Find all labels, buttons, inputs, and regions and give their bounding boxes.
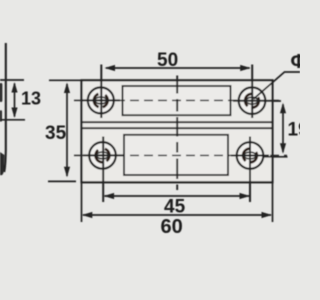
hole BL vertical center line / 45 dim extension: [102, 137, 104, 203]
dim 35 arrow line: [66, 84, 68, 176]
plate top edge extension (35 dim): [49, 79, 82, 81]
hole bottom-right: [231, 142, 269, 169]
bottom slot: [124, 135, 228, 175]
svg-text:19: 19: [288, 120, 301, 141]
dim 13 bottom extension line: [0, 119, 25, 121]
svg-text:13: 13: [21, 89, 41, 109]
hole top-left: [82, 87, 120, 113]
dim 60 left extension line: [81, 183, 83, 222]
dim 19 top extension line: [264, 100, 281, 102]
side view left flange stub upper: [0, 85, 2, 101]
plate vertical center line: [176, 76, 178, 191]
side view bottom wedge: [0, 152, 4, 175]
seam line upper: [82, 121, 273, 123]
dim 19 arrow line: [282, 105, 284, 153]
dim 13 arrow line: [14, 84, 16, 117]
seam line lower: [82, 127, 273, 129]
top holes dashed center line: [74, 99, 281, 101]
dim 60 arrow line: [83, 214, 271, 216]
dim 45 arrow line: [105, 195, 250, 197]
hole TR vertical center line / 50 dim extension: [251, 65, 253, 119]
hole BR vertical center line / 45 dim extension: [249, 137, 251, 203]
top slot: [123, 86, 231, 115]
dim 35 bottom extension line: [48, 180, 76, 182]
svg-text:60: 60: [161, 216, 183, 238]
dim 60 right extension line: [272, 183, 274, 222]
dim 13 top extension line: [0, 79, 24, 81]
svg-text:50: 50: [157, 50, 178, 71]
svg-text:Φ: Φ: [291, 51, 301, 73]
side view edge line: [4, 43, 6, 172]
side view left flange stub lower: [0, 112, 2, 121]
hole top-right: [233, 87, 271, 114]
bottom holes dashed center line: [74, 154, 287, 156]
phi leader line: [254, 72, 301, 99]
dim 50 arrow line: [106, 67, 250, 69]
dim 19 bottom extension line: [264, 156, 288, 158]
plate outline: [82, 80, 273, 182]
hole bottom-left: [83, 142, 123, 169]
hole TL vertical center line / 50 dim extension: [100, 65, 102, 119]
svg-text:35: 35: [45, 123, 67, 144]
